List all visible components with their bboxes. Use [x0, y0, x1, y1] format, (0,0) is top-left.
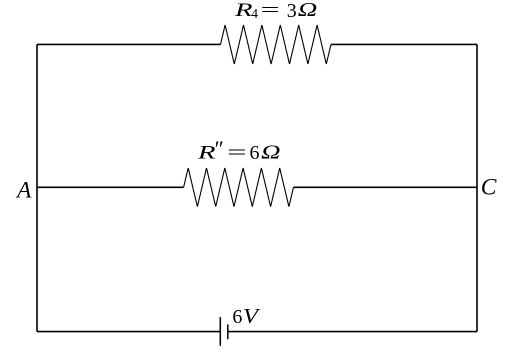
svg-text:=: =	[261, 0, 280, 21]
battery V1 short plate	[227, 324, 229, 339]
battery value 6V	[232, 304, 260, 328]
wire: right vertical (C branch)	[476, 44, 478, 331]
svg-text:″: ″	[213, 136, 223, 161]
svg-text:6: 6	[250, 142, 260, 164]
label R'' = 6 Ohm	[196, 136, 280, 164]
svg-text:=: =	[227, 142, 247, 163]
battery V1 long plate	[219, 317, 221, 346]
svg-text:C: C	[481, 174, 497, 200]
wire: bottom-right segment	[228, 331, 477, 333]
resistor R''	[184, 168, 294, 207]
wire: left vertical (A branch)	[36, 44, 38, 331]
svg-text:A: A	[15, 178, 32, 204]
wire: middle-left segment (node A)	[37, 186, 184, 188]
wire: middle-right segment (node C)	[294, 186, 478, 188]
label R4 = 3 Ohm	[233, 0, 317, 22]
resistor R4	[221, 25, 332, 64]
wire: bottom-left segment	[37, 331, 220, 333]
svg-text:Ω: Ω	[298, 0, 318, 21]
svg-text:Ω: Ω	[261, 141, 281, 163]
svg-text:3: 3	[287, 0, 297, 22]
wire: top-right segment	[331, 43, 477, 45]
svg-text:R: R	[233, 0, 253, 21]
svg-text:6: 6	[232, 306, 242, 328]
wire: top-left segment	[37, 43, 221, 45]
svg-text:V: V	[243, 304, 261, 328]
svg-text:4: 4	[251, 6, 258, 21]
